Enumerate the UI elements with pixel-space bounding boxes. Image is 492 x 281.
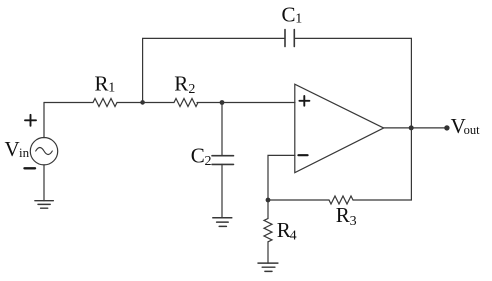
op-amp + input symbol <box>299 96 309 106</box>
voltage source Vin <box>43 103 45 138</box>
op-amp - input symbol <box>298 154 307 156</box>
node A (junction R1/R2/C1 branch) <box>140 100 145 105</box>
svg-text:1: 1 <box>108 81 115 96</box>
capacitor C1 <box>285 30 294 47</box>
capacitor C2 <box>212 156 234 165</box>
wire: node A up and across to C1 <box>143 38 285 102</box>
wire: op-amp output <box>384 127 447 129</box>
wire: output down to feedback rail <box>353 128 411 200</box>
wire: node B down to C2 <box>221 103 223 156</box>
svg-text:4: 4 <box>290 229 297 244</box>
wire: R3 to node C <box>268 199 329 201</box>
wire: C2 to ground <box>221 164 223 217</box>
wire: source bottom to ground <box>43 165 45 201</box>
svg-text:R: R <box>95 71 109 95</box>
node: Vout terminal <box>444 125 449 130</box>
node C (junction -input/R3/R4) <box>266 198 271 203</box>
wire: R4 to ground <box>267 242 269 263</box>
node: output junction <box>409 125 414 130</box>
node B (junction R2/C2/op-amp +) <box>220 100 225 105</box>
resistor R2 <box>174 99 198 107</box>
wire: node B to op-amp + input <box>222 102 295 104</box>
sine wave inside source <box>36 148 53 155</box>
svg-text:R: R <box>174 72 188 96</box>
wire: Vin top to R1 (main input rail y=102.5) <box>44 102 93 104</box>
wire: R1 to node A <box>117 102 143 104</box>
svg-text:C: C <box>282 3 296 27</box>
ground (R4) <box>258 263 278 271</box>
resistor R3 <box>329 196 353 204</box>
ground (C2) <box>213 218 232 227</box>
minus sign (source polarity) <box>25 167 36 169</box>
svg-text:R: R <box>336 203 350 227</box>
wire: R2 to node B <box>197 102 222 104</box>
svg-text:V: V <box>5 137 20 161</box>
ground (Vin) <box>35 201 53 209</box>
svg-text:2: 2 <box>205 154 212 169</box>
wire: node A to R2 <box>143 102 174 104</box>
resistor R1 <box>93 99 117 107</box>
svg-text:in: in <box>19 145 30 160</box>
plus sign (source polarity) <box>25 115 36 126</box>
wire: C1 to top-right corner down to output node <box>294 38 411 128</box>
wire: op-amp - input to left <box>268 155 295 200</box>
svg-text:out: out <box>464 123 481 137</box>
svg-text:3: 3 <box>350 214 357 229</box>
op-amp U1 <box>295 84 384 172</box>
resistor R4 <box>264 219 272 242</box>
svg-text:2: 2 <box>188 82 195 97</box>
wire: node C down to R4 <box>267 200 269 219</box>
svg-text:C: C <box>191 143 205 167</box>
svg-text:1: 1 <box>295 11 302 26</box>
